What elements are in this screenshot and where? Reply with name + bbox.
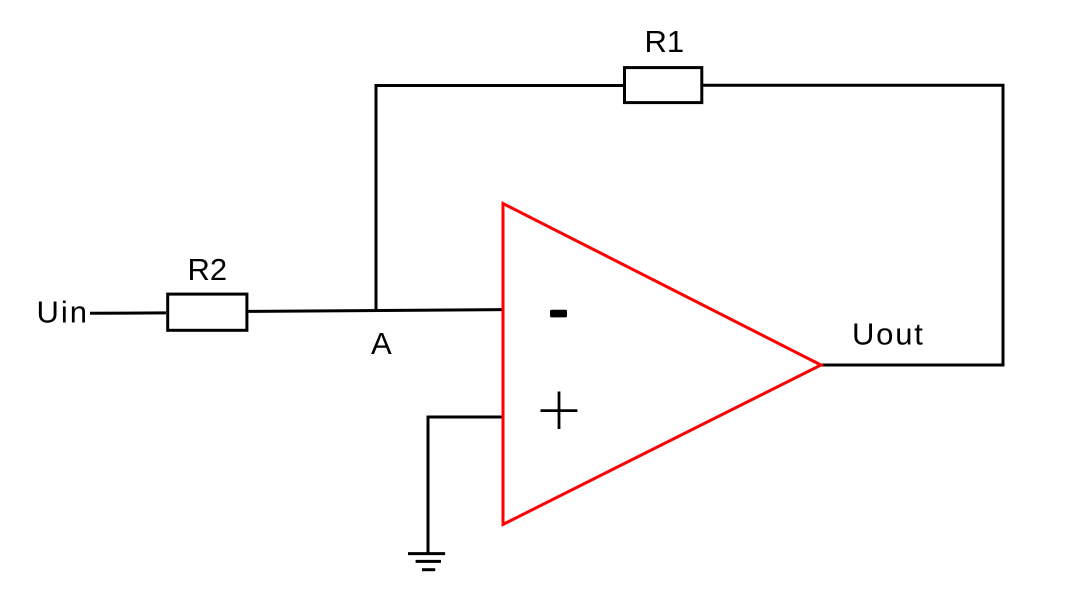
wire R2 to inverting input xyxy=(248,310,503,312)
wire feedback top: node A up and across to R1 xyxy=(376,86,624,311)
svg-text:Uin: Uin xyxy=(37,295,90,330)
ground xyxy=(408,554,445,570)
op-amp U1 xyxy=(503,204,821,525)
resistor R1 xyxy=(625,68,702,103)
svg-text:R2: R2 xyxy=(188,252,228,287)
wire Uin to R2 xyxy=(90,311,166,314)
op-amp plus sign xyxy=(541,392,578,430)
wire ground to non-inverting input xyxy=(428,417,503,553)
op-amp minus sign xyxy=(550,310,567,318)
svg-text:A: A xyxy=(371,326,392,361)
svg-text:Uout: Uout xyxy=(852,317,925,352)
svg-text:R1: R1 xyxy=(645,24,685,59)
resistor R2 xyxy=(168,294,247,330)
wire R1 to output via top-right corner xyxy=(703,85,1004,365)
